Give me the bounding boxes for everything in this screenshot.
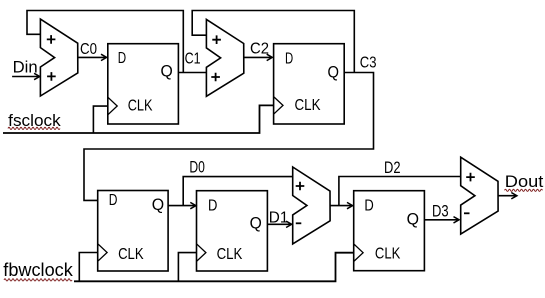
squiggle Dout (505, 189, 543, 191)
wire FF4 CLK riser (178, 253, 196, 282)
squiggle fbwclock (4, 279, 72, 281)
minus U3 bottom input (296, 222, 302, 224)
flip-flop FF4 (197, 191, 268, 271)
wire Din input (12, 76, 39, 78)
plus U1 bottom input (47, 72, 56, 81)
wire fsclock rail to FF2 CLK (3, 105, 274, 133)
plus U2 top input (212, 35, 221, 44)
svg-text:CLK: CLK (375, 245, 401, 262)
wire FF3 CLK riser (79, 253, 97, 282)
flip-flop FF3 (98, 191, 168, 272)
minus U4 bottom input (464, 212, 470, 214)
wire loop1 feedback C1 to adder U1 (27, 11, 183, 73)
svg-text:Dout: Dout (505, 172, 544, 191)
svg-text:D: D (118, 50, 126, 67)
FF3 clock triangle (98, 244, 107, 262)
plus U2 bottom input (211, 73, 220, 82)
plus U3 top input (296, 182, 305, 191)
wire C3 FF2 Q down and around to FF3 D (84, 73, 374, 201)
svg-text:Q: Q (328, 63, 340, 82)
wire FF1 CLK stub (93, 106, 107, 133)
svg-text:fbwclock: fbwclock (3, 260, 73, 280)
wire C0 U1 out to FF1 D (78, 56, 106, 58)
adder U2 (206, 19, 243, 96)
plus U1 top input (47, 35, 56, 44)
wire D1 FF4 Q to adder U3 minus (267, 223, 291, 225)
wire C1 FF1 Q to adder U2 (178, 72, 206, 74)
svg-text:D: D (285, 50, 293, 67)
svg-text:D2: D2 (384, 158, 401, 177)
wire loop2 feedback C3 to adder U2 (192, 11, 354, 73)
wire D3 FF5 Q to adder U4 minus (424, 219, 458, 221)
svg-text:C1: C1 (185, 51, 201, 68)
FF4 clock triangle (197, 244, 206, 262)
adder U4 (461, 157, 498, 234)
flip-flop FF1 (108, 44, 179, 124)
svg-text:Din: Din (13, 58, 38, 77)
squiggle fsclock (8, 127, 60, 129)
svg-text:Q: Q (407, 209, 419, 228)
wire U3 out to FF5 D (330, 205, 352, 207)
svg-text:CLK: CLK (217, 246, 243, 263)
plus U4 top input (466, 173, 475, 182)
wire D2 branch up to adder U4 (339, 177, 461, 206)
svg-text:CLK: CLK (128, 97, 153, 114)
wire C2 U2 out to FF2 D (244, 56, 272, 58)
svg-text:C3: C3 (360, 54, 377, 71)
flip-flop FF5 (354, 191, 425, 271)
flip-flop FF2 (274, 44, 345, 124)
wire D0 branch up to adder U3 (183, 177, 293, 206)
FF1 clock triangle (108, 97, 117, 115)
svg-text:D: D (364, 197, 373, 214)
svg-text:C2: C2 (250, 40, 269, 57)
svg-text:Q: Q (161, 62, 173, 81)
adder U3 (293, 167, 330, 244)
svg-text:D: D (208, 197, 217, 214)
svg-text:D3: D3 (432, 202, 449, 221)
svg-text:Q: Q (152, 195, 164, 214)
wire Dout U4 out (498, 195, 516, 197)
svg-text:D0: D0 (189, 158, 205, 177)
svg-text:D: D (109, 192, 118, 209)
svg-text:CLK: CLK (118, 246, 144, 263)
FF5 clock triangle (354, 244, 363, 262)
wire FF3 Q to FF4 D (168, 205, 195, 207)
wire fbwclock rail to FF5 CLK (74, 253, 354, 282)
svg-text:CLK: CLK (295, 97, 321, 114)
adder U1 (40, 19, 77, 96)
svg-text:C0: C0 (80, 41, 97, 58)
svg-text:Q: Q (250, 213, 262, 232)
FF2 clock triangle (274, 97, 283, 115)
